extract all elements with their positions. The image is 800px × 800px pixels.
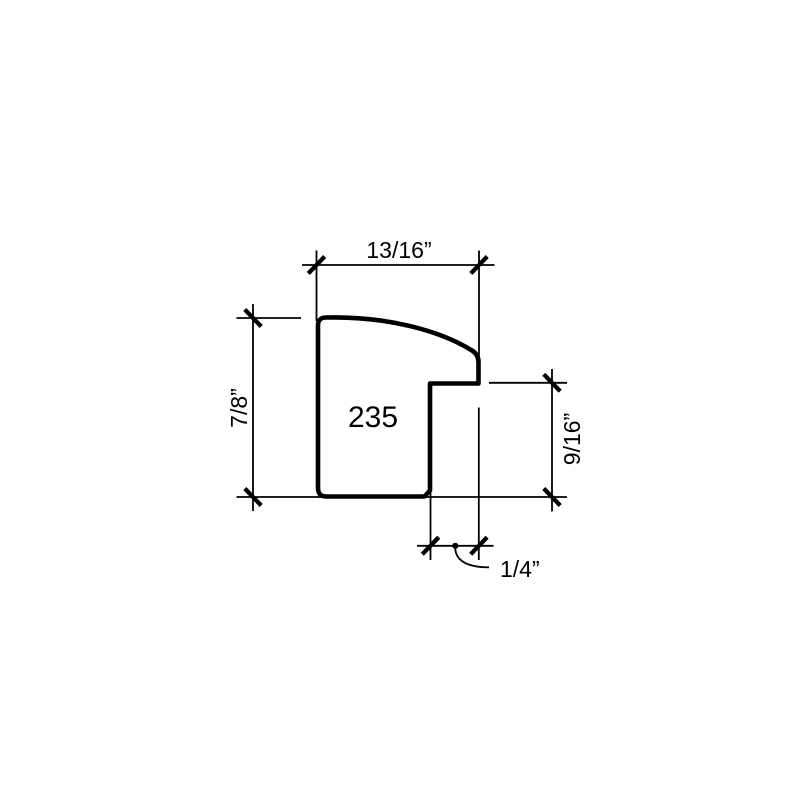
extension line top left [316, 251, 318, 322]
tick right top [544, 374, 560, 391]
tick bottom right [471, 537, 487, 554]
tick right bottom [544, 489, 560, 506]
extension line bottom long [237, 496, 568, 498]
moulding profile 235 outline [318, 317, 479, 496]
leader dot [452, 543, 458, 549]
tick top left [308, 257, 324, 274]
svg-text:13/16”: 13/16” [366, 237, 431, 263]
extension line top right [478, 251, 480, 363]
extension line bottom left [430, 489, 432, 560]
svg-text:7/8”: 7/8” [226, 388, 252, 428]
tick bottom left [422, 537, 438, 554]
dimension line 13/16 top [302, 264, 495, 266]
dimension line 9/16 right [551, 369, 553, 512]
tick left top [245, 310, 261, 327]
dimension line 1/4 bottom [417, 545, 494, 547]
svg-text:235: 235 [348, 401, 398, 434]
dimension line 7/8 left [252, 304, 254, 511]
leader curve [455, 549, 489, 568]
extension line left top [237, 317, 302, 319]
tick left bottom [245, 489, 261, 506]
extension line right top [489, 382, 567, 384]
svg-text:1/4”: 1/4” [500, 556, 540, 582]
extension line bottom right [478, 408, 480, 561]
tick top right [471, 257, 487, 274]
svg-text:9/16”: 9/16” [559, 413, 585, 465]
